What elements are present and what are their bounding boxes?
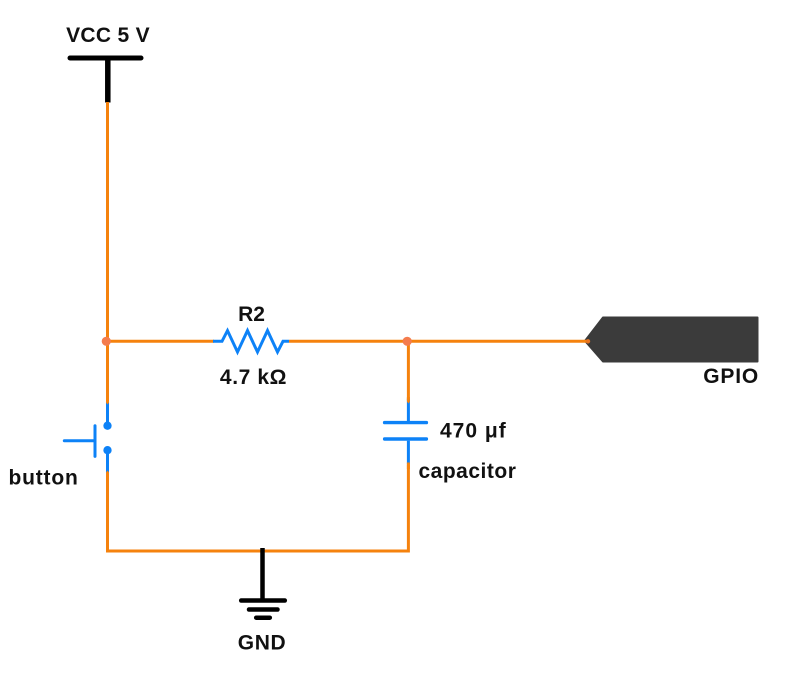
ground symbol <box>241 548 285 618</box>
svg-text:4.7 kΩ: 4.7 kΩ <box>220 366 287 389</box>
pushbutton (button) <box>64 399 111 476</box>
VCC power rail symbol <box>70 58 141 103</box>
svg-text:VCC 5 V: VCC 5 V <box>66 24 150 47</box>
svg-text:GND: GND <box>238 632 286 655</box>
node A junction dot <box>102 337 111 346</box>
wire: VCC stub down to node A <box>106 102 109 341</box>
wire endpoint nub: button top lead <box>106 398 109 405</box>
wire: node A to resistor R2 left lead <box>106 340 214 343</box>
wire: node A down to button top lead <box>106 341 109 400</box>
wire: button bottom lead to bottom rail <box>106 475 109 553</box>
GPIO wire end dot <box>586 339 590 343</box>
svg-text:R2: R2 <box>238 303 265 326</box>
svg-text:GPIO: GPIO <box>703 365 759 388</box>
wire endpoint nub: capacitor top <box>407 397 410 404</box>
wire endpoint nub: button bottom lead <box>106 471 109 478</box>
node B junction dot <box>403 337 412 346</box>
svg-text:470 μf: 470 μf <box>440 420 507 443</box>
wire endpoint nub: capacitor bottom <box>407 463 410 470</box>
wire: resistor R2 right lead to node B <box>289 340 408 343</box>
wire: capacitor bottom lead to bottom rail <box>407 463 410 553</box>
wire: node B to GPIO pin <box>408 340 590 343</box>
resistor R2 <box>213 331 289 352</box>
svg-text:button: button <box>9 467 79 490</box>
wire: node B down to capacitor top lead <box>407 341 410 400</box>
GPIO connector pin <box>585 318 758 362</box>
capacitor C1 <box>385 399 427 465</box>
wire: bottom rail <box>106 550 409 553</box>
svg-text:capacitor: capacitor <box>419 460 517 483</box>
